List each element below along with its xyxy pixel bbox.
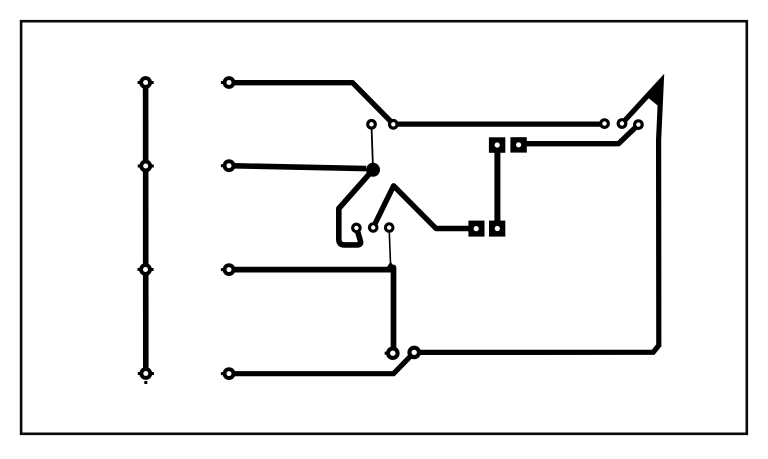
wire: thin drill link C3 to N2 bbox=[389, 232, 390, 264]
pad C2 bbox=[368, 222, 379, 233]
pad B3 bbox=[633, 119, 644, 130]
square pad S4 bbox=[510, 137, 526, 152]
pad B2 bbox=[617, 118, 628, 129]
wire: net2 trace from J2-2 to node N1 bbox=[229, 166, 366, 169]
pad C3 bbox=[384, 222, 395, 233]
wire: net1 top trace from J2-1 to pad near right bbox=[229, 83, 604, 124]
node N1 junction blob bbox=[366, 163, 380, 177]
pad J1-2 bbox=[138, 160, 154, 173]
via pad A2 bbox=[388, 119, 399, 130]
pad C1 bbox=[351, 223, 362, 234]
square pad S3 bbox=[489, 137, 505, 153]
wire: net3 trace from J2-3 to junction N2 and down to pad D1 bbox=[229, 268, 394, 351]
pad J2-1 bbox=[221, 76, 236, 89]
wire: left header vertical trace bbox=[143, 83, 149, 374]
wire: thin drill link A1 to node N1 bbox=[372, 129, 373, 165]
pad B1 top right bbox=[599, 118, 610, 129]
square pad S1 bbox=[468, 221, 484, 237]
pad D1 bbox=[385, 346, 400, 360]
wire: trace from S4 to pad B3 bbox=[519, 125, 639, 144]
wire: peak trace from pad C2 to square pad S1 bbox=[373, 186, 469, 229]
pad J1-4 bbox=[138, 367, 154, 384]
square pad S2 bbox=[489, 221, 505, 237]
wire: tip net from pad B2 up to tip, down right side, along bottom to pad D2 bbox=[229, 81, 661, 374]
via pad A1 bbox=[366, 119, 377, 130]
pad J1-1 bbox=[138, 76, 154, 89]
pad D2 bbox=[407, 346, 421, 360]
pad J1-3 bbox=[138, 263, 154, 276]
tip wedge fill bbox=[647, 79, 662, 106]
pad J2-2 bbox=[221, 159, 236, 172]
wire: hook trace from N1 around to pad C1 bbox=[339, 170, 373, 245]
pad J2-3 bbox=[221, 263, 236, 276]
node N2 junction peak bbox=[386, 262, 396, 269]
wire: vertical trace S2 to S3 bbox=[494, 145, 500, 229]
pad J2-4 bbox=[221, 367, 236, 380]
